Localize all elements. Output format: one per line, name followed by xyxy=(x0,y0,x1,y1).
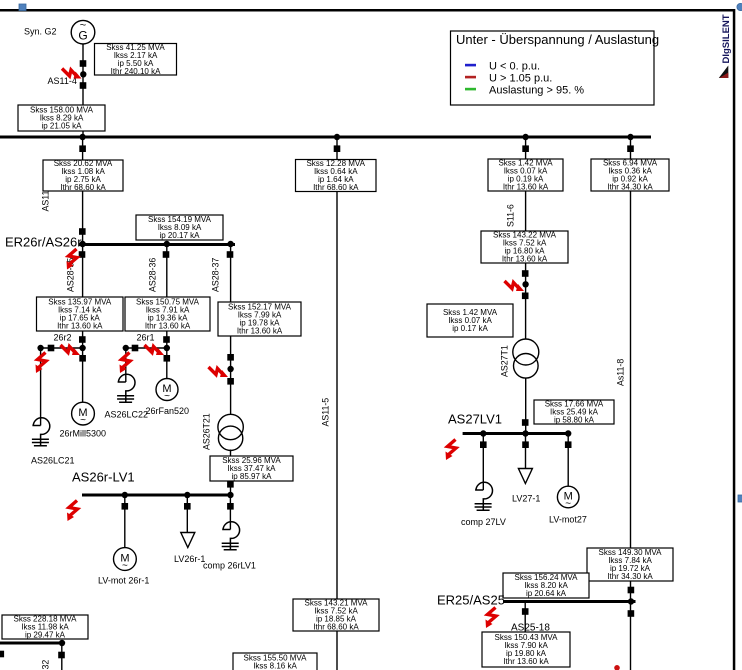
svg-text:Ithr 68.60 kA: Ithr 68.60 kA xyxy=(60,183,106,192)
svg-text:ip 85.97 kA: ip 85.97 kA xyxy=(231,472,272,481)
svg-text:ip 21.05 kA: ip 21.05 kA xyxy=(41,122,82,131)
svg-text:LV-mot27: LV-mot27 xyxy=(549,515,587,525)
svg-text:U < 0. p.u.: U < 0. p.u. xyxy=(489,61,540,73)
svg-text:~: ~ xyxy=(565,499,571,510)
svg-text:AS25-18: AS25-18 xyxy=(511,623,550,634)
svg-text:AS28-37: AS28-37 xyxy=(211,258,221,292)
svg-text:Syn. G2: Syn. G2 xyxy=(24,27,57,37)
svg-text:ip 20.64 kA: ip 20.64 kA xyxy=(526,589,567,598)
svg-text:ip 0.17 kA: ip 0.17 kA xyxy=(452,324,488,333)
svg-text:Ithr 34.30 kA: Ithr 34.30 kA xyxy=(607,572,653,581)
svg-text:DIgSILENT: DIgSILENT xyxy=(721,14,732,63)
svg-text:ip 58.80 kA: ip 58.80 kA xyxy=(554,416,595,425)
svg-text:comp 27LV: comp 27LV xyxy=(461,517,506,527)
svg-text:Ithr 13.60 kA: Ithr 13.60 kA xyxy=(237,327,283,336)
svg-text:32: 32 xyxy=(41,660,51,670)
svg-text:ip 29.47 kA: ip 29.47 kA xyxy=(25,631,66,640)
svg-text:Ithr 13.60 kA: Ithr 13.60 kA xyxy=(503,183,549,192)
svg-text:Ithr 240.10 kA: Ithr 240.10 kA xyxy=(111,67,161,76)
svg-text:~: ~ xyxy=(80,415,86,426)
svg-text:LV-mot 26r-1: LV-mot 26r-1 xyxy=(98,576,149,586)
svg-text:ER25/AS25: ER25/AS25 xyxy=(437,593,505,608)
svg-text:As11-8: As11-8 xyxy=(616,359,626,386)
svg-text:S11-6: S11-6 xyxy=(506,204,516,227)
svg-text:comp 26rLV1: comp 26rLV1 xyxy=(203,561,256,571)
svg-text:Unter - Überspannung / Auslast: Unter - Überspannung / Auslastung xyxy=(456,32,659,47)
svg-text:AS26T21: AS26T21 xyxy=(202,413,212,450)
svg-text:AS11: AS11 xyxy=(41,191,51,212)
svg-text:AS28-36: AS28-36 xyxy=(148,258,158,292)
svg-text:U > 1.05 p.u.: U > 1.05 p.u. xyxy=(489,73,552,85)
svg-text:Ithr 13.60 kA: Ithr 13.60 kA xyxy=(502,255,548,264)
svg-text:AS11-5: AS11-5 xyxy=(321,398,331,427)
svg-text:AS11-4: AS11-4 xyxy=(48,76,77,86)
svg-text:~: ~ xyxy=(164,391,170,402)
svg-text:Ithr 13.60 kA: Ithr 13.60 kA xyxy=(145,322,191,331)
svg-text:AS26r-LV1: AS26r-LV1 xyxy=(72,470,135,485)
svg-text:ER26r/AS26r: ER26r/AS26r xyxy=(5,235,82,250)
svg-text:LV26r-1: LV26r-1 xyxy=(174,554,205,564)
svg-text:Ithr 13.60 kA: Ithr 13.60 kA xyxy=(503,657,549,666)
svg-text:AS26LC22: AS26LC22 xyxy=(105,410,149,420)
svg-text:26r2: 26r2 xyxy=(54,333,72,343)
svg-text:AS27LV1: AS27LV1 xyxy=(448,412,502,427)
svg-text:ip 20.17 kA: ip 20.17 kA xyxy=(159,231,200,240)
svg-text:26rMill5300: 26rMill5300 xyxy=(60,429,107,439)
svg-text:Ithr 34.30 kA: Ithr 34.30 kA xyxy=(607,183,653,192)
svg-text:Ithr 13.60 kA: Ithr 13.60 kA xyxy=(57,322,103,331)
svg-text:AS26LC21: AS26LC21 xyxy=(31,456,75,466)
svg-text:~: ~ xyxy=(122,561,128,572)
svg-text:G: G xyxy=(78,29,87,43)
svg-text:AS27T1: AS27T1 xyxy=(500,345,510,377)
svg-text:Auslastung > 95. %: Auslastung > 95. % xyxy=(489,85,584,97)
svg-text:26r1: 26r1 xyxy=(137,333,155,343)
svg-text:Ithr 68.60 kA: Ithr 68.60 kA xyxy=(313,623,359,632)
svg-text:Ithr 68.60 kA: Ithr 68.60 kA xyxy=(313,183,359,192)
svg-text:26rFan520: 26rFan520 xyxy=(146,406,190,416)
svg-text:LV27-1: LV27-1 xyxy=(512,494,540,504)
